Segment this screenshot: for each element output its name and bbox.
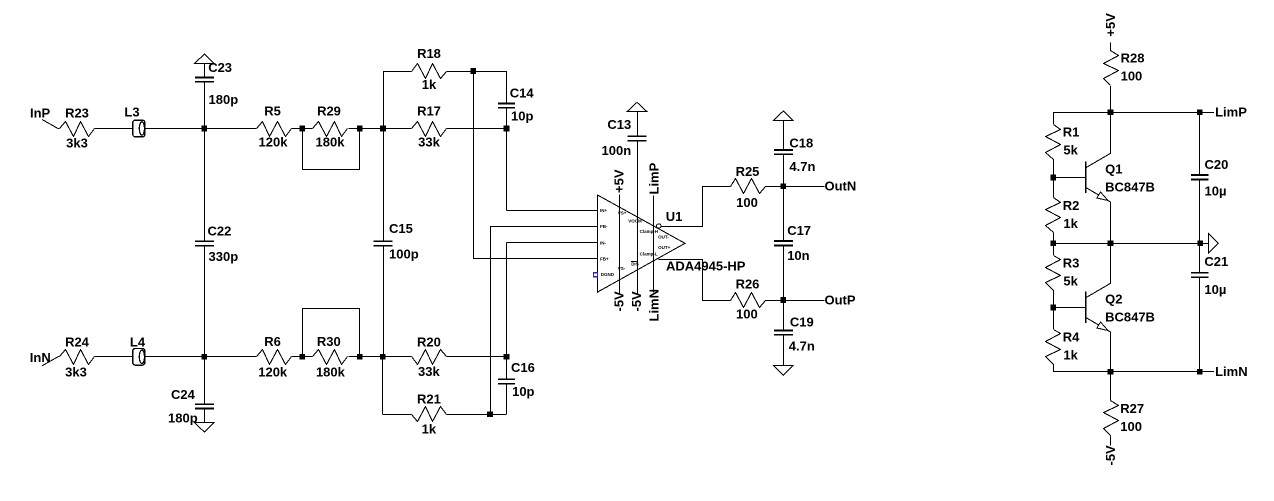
label C19 name	[790, 315, 814, 330]
label C24 value 180p	[168, 411, 198, 426]
junction R2-R3 on mid rail	[1050, 240, 1056, 246]
svg-text:-5V: -5V	[629, 291, 644, 312]
ground symbol above C13	[627, 102, 647, 111]
svg-text:330p: 330p	[209, 249, 239, 264]
net label LimN at Clamp-L	[646, 289, 661, 322]
open circle at OUT- pin	[657, 224, 661, 228]
svg-text:100n: 100n	[602, 143, 632, 158]
label L4 name	[130, 335, 146, 350]
wire C23 to node A	[204, 82, 206, 129]
svg-text:180k: 180k	[316, 364, 346, 379]
svg-text:R17: R17	[417, 104, 441, 119]
wire Q1 base node to R2	[1053, 178, 1055, 198]
wire R21 to junction H	[447, 414, 491, 416]
svg-text:R2: R2	[1063, 198, 1080, 213]
power label -5V below R27	[1103, 445, 1118, 466]
svg-text:OUT-: OUT-	[658, 235, 669, 240]
wire node G to op-amp IN-	[507, 243, 598, 357]
svg-text:R26: R26	[736, 277, 760, 292]
label R26 value 100	[736, 306, 758, 321]
wire LimP rail down right column to C20	[1199, 112, 1201, 175]
reference arrow symbol	[1209, 233, 1219, 253]
resistor R28	[1104, 51, 1119, 86]
label C21 value 10u	[1204, 282, 1226, 297]
wire L3 to node A	[145, 128, 205, 130]
svg-text:R1: R1	[1063, 125, 1080, 140]
svg-text:1k: 1k	[1063, 347, 1078, 362]
label R17 name	[417, 104, 441, 119]
label Q1 part BC847B	[1105, 180, 1155, 195]
label R29 name	[317, 104, 341, 119]
svg-text:Clamp-L: Clamp-L	[640, 252, 658, 257]
svg-text:180p: 180p	[168, 411, 198, 426]
pin label Clamp-H	[640, 229, 659, 234]
wire R1 to Q1 base node	[1053, 159, 1055, 177]
svg-text:180k: 180k	[316, 135, 346, 150]
svg-text:BC847B: BC847B	[1105, 310, 1155, 325]
svg-text:FB-: FB-	[600, 224, 608, 229]
wire R26 to node OutP	[765, 300, 783, 302]
node B junction	[380, 126, 386, 132]
net label OutN	[825, 179, 857, 194]
label R4 value 1k	[1063, 347, 1078, 362]
transistor Q2 BC847B	[1086, 283, 1111, 332]
svg-text:C17: C17	[787, 223, 811, 238]
label R20 name	[417, 335, 441, 350]
resistor R29	[313, 122, 348, 137]
wire node E to C24	[204, 357, 206, 404]
pin label VOCM	[628, 219, 642, 224]
wire node F down to R21 row	[383, 357, 412, 415]
junction R28-collector on LimP rail	[1108, 109, 1114, 115]
wire C16 to node G	[506, 357, 508, 380]
wire mid rail to C21	[1199, 243, 1201, 273]
label C16 value 10p	[512, 384, 534, 399]
label R2 value 1k	[1063, 216, 1078, 231]
svg-text:R5: R5	[264, 104, 281, 119]
label C21 name	[1204, 254, 1228, 269]
node A junction	[202, 126, 208, 132]
label L3 name	[124, 105, 139, 120]
label R5 value 120k	[259, 135, 289, 150]
svg-text:L3: L3	[124, 105, 139, 120]
svg-text:R4: R4	[1063, 329, 1080, 344]
pin label DIS with overline	[631, 261, 639, 266]
capacitor C18	[774, 150, 793, 154]
transistor Q1 BC847B	[1086, 153, 1111, 202]
label Q2 name	[1105, 292, 1122, 307]
svg-text:R3: R3	[1063, 255, 1080, 270]
label R23 value 3k3	[66, 136, 88, 151]
wire junction D to op-amp FB+	[473, 71, 597, 259]
wire R25 to node OutN	[765, 186, 783, 188]
svg-text:R24: R24	[65, 334, 90, 349]
junction Q1 base node	[1050, 175, 1056, 181]
label R21 value 1k	[422, 421, 437, 436]
svg-text:R6: R6	[264, 334, 281, 349]
svg-text:R21: R21	[417, 391, 441, 406]
svg-text:4.7n: 4.7n	[789, 338, 815, 353]
label R25 name	[736, 164, 760, 179]
capacitor C16	[498, 379, 515, 383]
wire C21 to LimN rail	[1199, 277, 1201, 372]
wire C14 to node C	[506, 108, 508, 129]
svg-text:C23: C23	[208, 60, 232, 75]
label C20 name	[1205, 157, 1229, 172]
svg-text:120k: 120k	[259, 135, 289, 150]
wire ground to C23	[204, 64, 206, 78]
wire Q2 base	[1053, 307, 1086, 309]
svg-text:R18: R18	[417, 46, 441, 61]
svg-text:+5V: +5V	[1103, 13, 1118, 37]
wire node A to C22	[204, 129, 206, 242]
label R28 name	[1121, 50, 1145, 65]
wire junction H to op-amp FB-	[490, 227, 597, 415]
wire R2 to mid rail	[1053, 233, 1055, 244]
label R28 value 100	[1121, 68, 1143, 83]
svg-text:IN-: IN-	[600, 240, 607, 245]
junction H on R21 row	[487, 411, 493, 417]
junction C20-C21 on mid rail	[1198, 240, 1204, 246]
label C23 name	[208, 60, 232, 75]
wire LimP rail down to R1	[1053, 112, 1055, 124]
pin label IN-	[600, 240, 607, 245]
wire node B up to R18 row	[383, 71, 412, 129]
svg-text:OUT+: OUT+	[658, 245, 670, 250]
wire R24 to L4	[95, 356, 133, 358]
wire node B to R17	[383, 128, 412, 130]
svg-text:C13: C13	[607, 117, 631, 132]
junction D on R18 row	[471, 68, 477, 74]
svg-text:120k: 120k	[258, 364, 288, 379]
svg-text:100: 100	[1121, 68, 1143, 83]
svg-text:Q2: Q2	[1105, 292, 1122, 307]
label C22 name	[208, 223, 232, 238]
mid rail wire	[1053, 243, 1200, 245]
resistor R21	[412, 407, 447, 422]
label R3 name	[1063, 255, 1080, 270]
label R4 name	[1063, 329, 1080, 344]
inductor L4	[133, 349, 145, 366]
svg-text:U1: U1	[666, 209, 683, 224]
label R27 value 100	[1120, 419, 1142, 434]
junction Q1 emitter Q2 collector on mid rail	[1108, 240, 1114, 246]
resistor R23	[60, 122, 95, 137]
svg-text:C15: C15	[389, 221, 413, 236]
svg-text:100: 100	[1120, 419, 1142, 434]
wire R4 to LimN rail	[1053, 364, 1055, 372]
ground symbol below C19	[774, 366, 794, 376]
net label LimN	[1215, 364, 1248, 379]
pin wire VOCM from C13 through body	[637, 141, 639, 294]
label R29 value 180k	[316, 135, 346, 150]
pin label VS+	[618, 211, 627, 216]
svg-text:1k: 1k	[1063, 216, 1078, 231]
ground symbol below C24	[195, 423, 215, 433]
label R24 name	[65, 334, 90, 349]
label C15 value 100p	[389, 247, 419, 262]
label R18 value 1k	[422, 77, 437, 92]
svg-text:10p: 10p	[511, 108, 533, 123]
resistor R3	[1046, 256, 1061, 291]
wire R6 to R30	[291, 356, 312, 358]
net label LimP at Clamp-H	[646, 162, 661, 194]
node E junction	[202, 354, 208, 360]
wire node C to op-amp IN+	[507, 129, 598, 211]
capacitor C23	[195, 77, 214, 81]
wire R5 to R29	[291, 128, 312, 130]
label R3 value 5k	[1063, 273, 1078, 288]
svg-text:VOCM: VOCM	[628, 219, 642, 224]
wire C19 to ground	[783, 335, 785, 366]
wire node OutP to C19	[783, 300, 785, 330]
node G junction	[504, 354, 510, 360]
wire LimN rail to R27	[1110, 372, 1112, 401]
LimP rail wire	[1053, 112, 1214, 114]
wire junction H to C16	[490, 384, 507, 415]
label R20 value 33k	[418, 364, 440, 379]
svg-text:C16: C16	[511, 360, 535, 375]
pin label DGND	[601, 272, 615, 277]
pin wire Clamp-H through body	[653, 196, 655, 293]
label C19 value 4.7n	[789, 338, 815, 353]
label R5 name	[264, 104, 281, 119]
label R25 value 100	[736, 195, 758, 210]
label Q2 part BC847B	[1105, 310, 1155, 325]
label R6 name	[264, 334, 281, 349]
power label -5V at DIS pin	[629, 291, 644, 312]
svg-text:5k: 5k	[1063, 273, 1078, 288]
wire node OutN to C17	[783, 186, 785, 241]
svg-text:1k: 1k	[422, 77, 437, 92]
capacitor C15	[374, 241, 393, 245]
wire Q2 base node to R4	[1053, 308, 1055, 330]
svg-text:+5V: +5V	[612, 169, 627, 193]
svg-text:DGND: DGND	[601, 272, 615, 277]
junction right of R30	[357, 354, 363, 360]
capacitor C21	[1191, 273, 1208, 277]
label R1 value 5k	[1063, 143, 1078, 158]
svg-text:-5V: -5V	[612, 291, 627, 312]
wire InN to R24	[42, 357, 60, 366]
resistor R17	[412, 122, 447, 137]
node F junction	[380, 354, 386, 360]
wire +5V to R28	[1110, 43, 1112, 51]
ground symbol above C18	[774, 111, 794, 121]
label R24 value 3k3	[65, 364, 87, 379]
wire C17 to node OutP	[783, 245, 785, 300]
wire R3 to Q2 base node	[1053, 290, 1055, 308]
svg-text:R25: R25	[736, 164, 760, 179]
pin label IN+	[600, 208, 608, 213]
power label +5V at VS+ pin	[612, 169, 627, 193]
capacitor C24	[195, 404, 214, 408]
wire R27 to -5V	[1110, 436, 1112, 446]
label C17 value 10n	[787, 248, 809, 263]
label C20 value 10u	[1205, 184, 1227, 199]
junction C20 on LimP rail	[1197, 109, 1203, 115]
label C18 value 4.7n	[789, 159, 815, 174]
node C junction	[504, 126, 510, 132]
node OutN junction	[781, 184, 787, 190]
label R6 value 120k	[258, 364, 288, 379]
label C23 value 180p	[209, 92, 239, 107]
wire Q1 emitter to mid rail	[1110, 202, 1112, 243]
svg-text:3k3: 3k3	[66, 136, 88, 151]
capacitor C17	[774, 241, 793, 245]
capacitor C19	[774, 330, 793, 334]
svg-text:R23: R23	[65, 105, 89, 120]
svg-text:1k: 1k	[422, 421, 437, 436]
svg-text:C14: C14	[510, 86, 535, 101]
label R21 name	[417, 391, 441, 406]
svg-text:10n: 10n	[787, 248, 809, 263]
svg-text:InP: InP	[30, 105, 51, 120]
svg-text:ADA4945-HP: ADA4945-HP	[666, 258, 746, 273]
svg-text:100p: 100p	[389, 247, 419, 262]
wire node F to R20	[383, 356, 412, 358]
label U1 reference	[666, 209, 683, 224]
wire to OutP label	[783, 300, 824, 302]
wire C20 to mid rail	[1199, 179, 1201, 243]
pin label FB-	[600, 224, 608, 229]
pin label VS-	[618, 266, 626, 271]
wire node B to C15	[383, 129, 385, 242]
svg-text:OutP: OutP	[825, 292, 856, 307]
svg-text:LimN: LimN	[1215, 364, 1248, 379]
resistor R26	[731, 293, 766, 308]
resistor R4	[1046, 330, 1061, 365]
label R17 value 33k	[418, 135, 440, 150]
svg-text:C22: C22	[208, 223, 232, 238]
svg-text:IN+: IN+	[600, 208, 608, 213]
svg-text:Q1: Q1	[1105, 162, 1122, 177]
junction left of R30	[299, 354, 305, 360]
ground symbol above C23	[195, 54, 215, 64]
svg-text:LimN: LimN	[646, 289, 661, 322]
wire R28 to LimP rail	[1110, 86, 1112, 112]
svg-text:C21: C21	[1204, 254, 1228, 269]
svg-text:R20: R20	[417, 335, 441, 350]
svg-text:BC847B: BC847B	[1105, 180, 1155, 195]
svg-text:100: 100	[736, 306, 758, 321]
svg-text:4.7n: 4.7n	[789, 159, 815, 174]
wire Q1 base	[1053, 177, 1086, 179]
LimN rail wire	[1053, 371, 1214, 373]
label C15 name	[389, 221, 413, 236]
wire R17 to node C	[447, 128, 507, 130]
junction R27-emitter on LimN rail	[1108, 369, 1114, 375]
wire ground to C18	[783, 121, 785, 150]
label C14 name	[510, 86, 535, 101]
resistor R25	[731, 179, 766, 194]
label C13 value 100n	[602, 143, 632, 158]
wire InP to R23	[42, 120, 60, 129]
svg-text:C18: C18	[789, 135, 813, 150]
pin label OUT-	[658, 235, 669, 240]
resistor R6	[257, 350, 292, 365]
wire node A to R5	[204, 128, 256, 130]
net label LimP	[1215, 105, 1247, 120]
capacitor C13	[628, 136, 647, 140]
resistor R30	[313, 350, 348, 365]
wire OUT- to R25	[657, 187, 731, 227]
svg-text:100: 100	[736, 195, 758, 210]
net label OutP	[825, 292, 856, 307]
label C13 name	[607, 117, 631, 132]
capacitor C22	[195, 241, 214, 245]
svg-text:10p: 10p	[512, 384, 534, 399]
label R2 name	[1063, 198, 1080, 213]
label R23 name	[65, 105, 89, 120]
node OutP junction	[781, 297, 787, 303]
svg-text:5k: 5k	[1063, 143, 1078, 158]
svg-text:180p: 180p	[209, 92, 239, 107]
label R27 name	[1120, 401, 1144, 416]
wire L4 to node E	[145, 356, 205, 358]
resistor R1	[1046, 125, 1061, 160]
label C18 name	[789, 135, 813, 150]
junction C21 on LimN rail	[1197, 369, 1203, 375]
capacitor C20	[1191, 175, 1208, 179]
svg-text:3k3: 3k3	[65, 364, 87, 379]
wire R23 to L3	[95, 128, 133, 130]
svg-text:C19: C19	[790, 315, 814, 330]
wire OUT+ to R26	[659, 260, 731, 301]
svg-text:C20: C20	[1205, 157, 1229, 172]
label R18 name	[417, 46, 441, 61]
power label -5V at VS- pin	[612, 291, 627, 312]
wire mid rail to R3	[1053, 243, 1055, 255]
wire loop parallel to R30	[303, 309, 360, 357]
pin label Clamp-L	[640, 252, 658, 257]
resistor R18	[412, 64, 447, 79]
wire node E to R6	[204, 356, 256, 358]
power label +5V above R28	[1103, 13, 1118, 37]
junction Q2 base node	[1050, 305, 1056, 311]
resistor R5	[257, 122, 292, 137]
resistor R27	[1104, 401, 1119, 436]
label C24 name	[171, 387, 196, 402]
label R1 name	[1063, 125, 1080, 140]
pin wire VS+ through body	[619, 195, 621, 294]
junction right of R29	[357, 126, 363, 132]
label C17 name	[787, 223, 811, 238]
label R26 name	[736, 277, 760, 292]
wire Q2 collector to mid rail	[1110, 243, 1112, 283]
svg-text:R28: R28	[1121, 50, 1145, 65]
svg-text:C24: C24	[171, 387, 196, 402]
wire R30 to node F	[348, 356, 382, 358]
label R30 name	[317, 334, 341, 349]
wire mid rail to reference arrow	[1200, 243, 1208, 245]
label C16 name	[511, 360, 535, 375]
label Q1 name	[1105, 162, 1122, 177]
op-amp U1 ADA4945-HP triangle	[598, 195, 686, 292]
svg-text:FB+: FB+	[600, 257, 609, 262]
svg-text:33k: 33k	[418, 364, 440, 379]
svg-text:33k: 33k	[418, 135, 440, 150]
wire ground to C13	[637, 112, 639, 136]
label C22 value 330p	[209, 249, 239, 264]
wire loop parallel to R29	[303, 129, 360, 170]
svg-text:L4: L4	[130, 335, 146, 350]
svg-text:LimP: LimP	[1215, 105, 1247, 120]
wire R18 to junction D	[447, 71, 474, 73]
pin label FB+	[600, 257, 609, 262]
wire Q1 collector to LimP rail	[1110, 112, 1112, 153]
resistor R20	[412, 350, 447, 365]
